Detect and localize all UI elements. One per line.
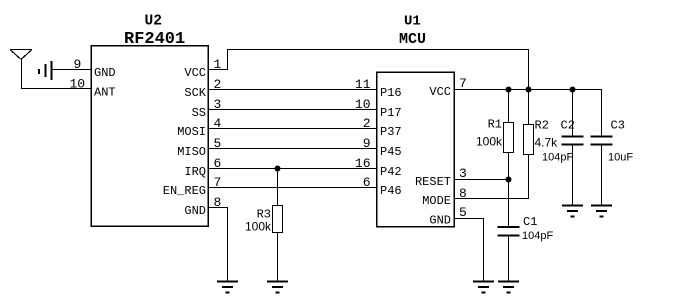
- svg-text:8: 8: [214, 195, 222, 210]
- wire VCC rail right of U1: [454, 90, 602, 137]
- svg-text:P17: P17: [380, 106, 402, 120]
- svg-text:U1: U1: [404, 14, 421, 30]
- wire C2 to ground: [572, 145, 574, 206]
- capacitor antenna coupling: [39, 61, 52, 80]
- svg-text:104pF: 104pF: [522, 230, 553, 242]
- svg-text:100k: 100k: [245, 220, 272, 234]
- wire GND pin5 down: [454, 219, 484, 282]
- svg-text:16: 16: [355, 156, 371, 171]
- wire VCC to R1 top: [508, 90, 510, 123]
- wire U2 GND pin8 down: [208, 208, 228, 282]
- svg-text:ANT: ANT: [94, 86, 116, 100]
- wire SS to P17: [208, 109, 376, 111]
- wire IRQ junction down to R3: [277, 169, 279, 206]
- svg-text:4: 4: [214, 116, 222, 131]
- svg-text:3: 3: [214, 97, 222, 112]
- svg-text:9: 9: [74, 57, 82, 72]
- svg-text:10: 10: [70, 77, 86, 92]
- capacitor C1: [498, 227, 520, 236]
- ground under C1: [498, 282, 519, 293]
- wire C1 to ground: [508, 236, 510, 282]
- svg-text:2: 2: [363, 116, 371, 131]
- junction dot RESET R1 C1: [506, 177, 512, 183]
- wire antenna to ANT pin10: [21, 88, 91, 90]
- svg-text:3: 3: [459, 166, 467, 181]
- svg-text:10: 10: [355, 97, 371, 112]
- svg-text:IRQ: IRQ: [184, 165, 206, 179]
- svg-text:C1: C1: [523, 215, 537, 229]
- svg-text:C2: C2: [561, 119, 575, 133]
- svg-text:P42: P42: [380, 165, 402, 179]
- svg-text:4.7k: 4.7k: [535, 136, 559, 150]
- wire C3 to ground: [601, 145, 603, 206]
- wire VCC to R2 top: [528, 90, 530, 125]
- wire MODE to R2: [454, 155, 529, 199]
- svg-text:SCK: SCK: [184, 86, 206, 100]
- ground under pin5: [473, 282, 494, 293]
- svg-text:11: 11: [355, 77, 371, 92]
- ground under C3: [591, 206, 612, 217]
- svg-text:10uF: 10uF: [608, 152, 633, 164]
- svg-text:MODE: MODE: [422, 194, 451, 208]
- wire MOSI to P37: [208, 128, 376, 130]
- svg-text:2: 2: [214, 77, 222, 92]
- svg-text:GND: GND: [94, 66, 116, 80]
- antenna: [10, 50, 32, 89]
- wire capacitor to GND pin9: [52, 69, 92, 71]
- junction dot VCC R2 rail: [526, 87, 532, 93]
- svg-text:P45: P45: [380, 145, 402, 159]
- svg-text:GND: GND: [184, 204, 206, 218]
- wire R1 bottom to RESET and C1: [508, 153, 510, 228]
- ground under U2 pin8: [217, 282, 238, 293]
- wire EN_REG to P46: [208, 187, 376, 189]
- ground under R3: [267, 282, 288, 293]
- svg-text:5: 5: [459, 205, 467, 220]
- svg-text:MOSI: MOSI: [177, 125, 206, 139]
- svg-text:RF2401: RF2401: [124, 30, 185, 49]
- wire RESET to R1: [454, 179, 509, 181]
- wire VCC net U2 pin1 top rail: [208, 50, 529, 90]
- IC U1 body: [377, 72, 455, 227]
- svg-text:100k: 100k: [476, 135, 503, 149]
- ground under C2: [562, 206, 583, 217]
- svg-text:5: 5: [214, 136, 222, 151]
- svg-text:RESET: RESET: [415, 175, 451, 189]
- resistor R2: [524, 125, 534, 155]
- wire IRQ to P42: [208, 168, 376, 170]
- svg-text:6: 6: [363, 175, 371, 190]
- svg-text:MISO: MISO: [177, 145, 206, 159]
- svg-text:MCU: MCU: [399, 31, 426, 48]
- svg-text:6: 6: [214, 156, 222, 171]
- svg-text:104pF: 104pF: [542, 152, 573, 164]
- svg-text:GND: GND: [429, 214, 451, 228]
- svg-text:9: 9: [363, 136, 371, 151]
- svg-text:P37: P37: [380, 125, 402, 139]
- svg-text:VCC: VCC: [184, 66, 206, 80]
- svg-text:7: 7: [459, 76, 467, 91]
- svg-text:1: 1: [214, 57, 222, 72]
- resistor R3: [273, 206, 283, 233]
- wire SCK to P16: [208, 89, 376, 91]
- svg-text:U2: U2: [145, 14, 162, 30]
- resistor R1: [504, 123, 514, 153]
- svg-text:8: 8: [459, 186, 467, 201]
- svg-text:7: 7: [214, 175, 222, 190]
- junction dot VCC R1: [506, 87, 512, 93]
- svg-text:R2: R2: [535, 119, 549, 133]
- capacitor C2: [562, 137, 584, 145]
- svg-text:SS: SS: [192, 106, 206, 120]
- svg-text:P16: P16: [380, 86, 402, 100]
- capacitor C3: [591, 137, 613, 145]
- wire VCC to C2: [572, 90, 574, 137]
- junction dot IRQ R3: [275, 166, 281, 172]
- svg-text:C3: C3: [611, 119, 625, 133]
- wire MISO to P45: [208, 148, 376, 150]
- svg-text:P46: P46: [380, 184, 402, 198]
- IC U2 body: [91, 46, 208, 227]
- wire R3 to ground: [277, 233, 279, 282]
- junction dot VCC C2: [570, 87, 576, 93]
- svg-text:VCC: VCC: [429, 85, 451, 99]
- svg-text:R1: R1: [488, 118, 502, 132]
- svg-text:EN_REG: EN_REG: [163, 184, 206, 198]
